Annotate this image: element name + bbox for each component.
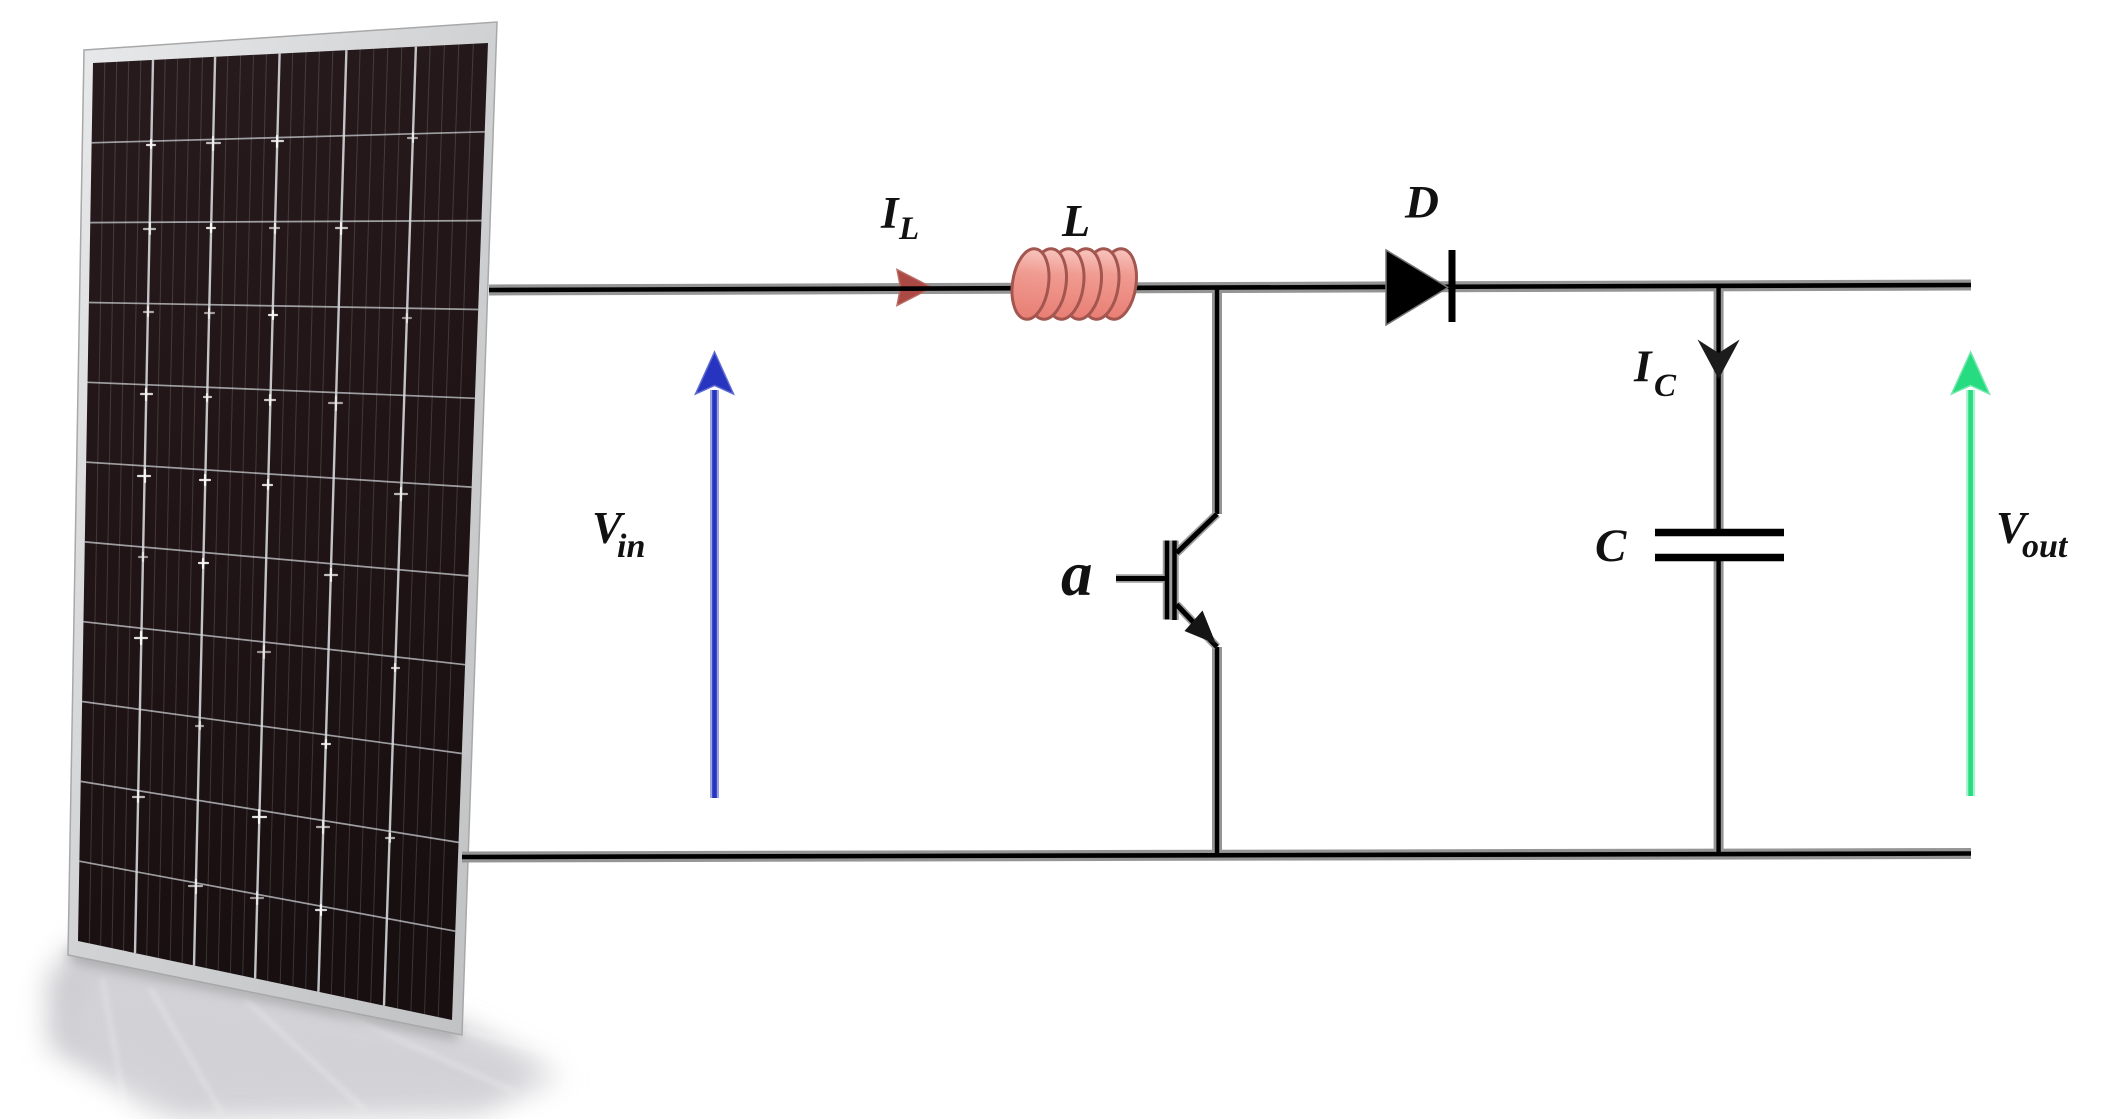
svg-text:C: C <box>1595 520 1627 572</box>
cell grid lines <box>79 47 484 1006</box>
contact shadow under panel bottom edge <box>70 954 458 1034</box>
svg-text:L: L <box>898 211 919 247</box>
transistor Q1 gate bar right <box>1172 541 1177 621</box>
wire capacitor branch upper <box>1716 285 1720 533</box>
svg-text:D: D <box>1404 177 1439 229</box>
wire transistor branch (collector drop) <box>1215 287 1219 514</box>
current arrow IL (red) <box>897 270 932 306</box>
solar panel PV module <box>48 22 600 1114</box>
svg-text:L: L <box>1061 195 1090 246</box>
diode D cathode bar <box>1449 250 1456 322</box>
voltage arrow Vin (blue) head <box>696 352 734 394</box>
capacitor C bottom plate <box>1655 554 1784 562</box>
transistor Q1 collector diagonal <box>1177 514 1218 553</box>
wire capacitor branch halo <box>1714 285 1724 533</box>
current arrow IC (black, down) <box>1698 340 1740 380</box>
diode D triangle <box>1386 250 1448 325</box>
voltage arrow Vout (green) head <box>1952 352 1990 394</box>
transistor Q1 gate lead <box>1116 576 1165 581</box>
wire top rail <box>489 285 1971 290</box>
wire transistor branch (emitter drop) <box>1215 647 1219 856</box>
svg-text:in: in <box>617 528 645 565</box>
solar panel cell area (dark quad) <box>78 43 488 1020</box>
voltage arrow Vin (blue) shaft <box>710 390 719 798</box>
transistor Q1 emitter diagonal <box>1177 605 1218 648</box>
sparkle crosses at cell intersections <box>133 133 417 915</box>
floor streak highlights <box>150 988 222 1114</box>
svg-text:I: I <box>880 188 900 238</box>
inductor L coil <box>1008 246 1141 321</box>
capacitor C top plate <box>1655 529 1784 537</box>
voltage arrow Vout (green) shaft <box>1966 390 1975 796</box>
wire bottom rail halo <box>462 854 1971 858</box>
svg-text:C: C <box>1654 368 1677 404</box>
svg-text:I: I <box>1633 342 1653 392</box>
cell striation texture <box>89 44 473 1017</box>
wire capacitor branch lower <box>1716 560 1720 856</box>
svg-text:a: a <box>1061 539 1093 609</box>
wire transistor branch halo <box>1212 287 1222 514</box>
transistor Q1 emitter arrowhead <box>1185 611 1217 645</box>
transistor Q1 gate bar left <box>1165 541 1170 620</box>
wire bottom rail <box>462 854 1971 858</box>
transistor symbol halo <box>1116 514 1217 647</box>
wire top rail halo <box>489 285 1971 290</box>
solar panel frame (outer aluminium quad) <box>68 22 497 1035</box>
svg-text:out: out <box>2022 528 2069 565</box>
ground shadow / floor reflection of panel <box>48 942 548 1114</box>
